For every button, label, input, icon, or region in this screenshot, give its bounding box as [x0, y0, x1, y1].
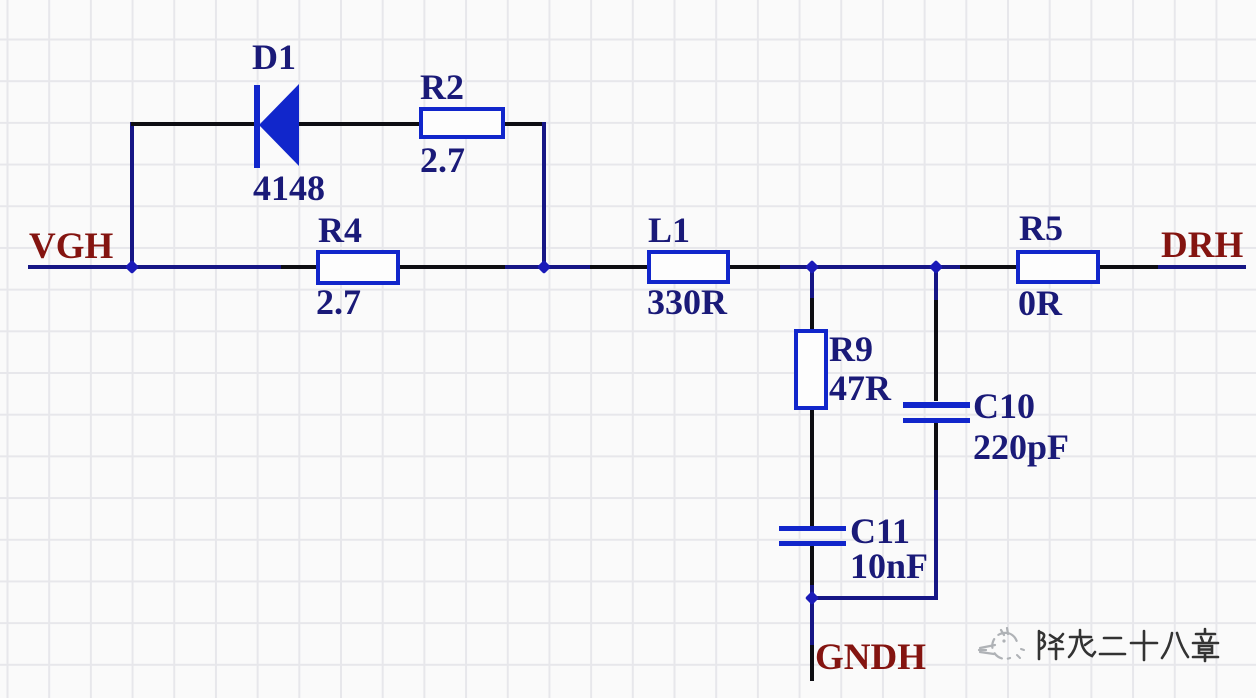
wire: junction A to R4: [131, 265, 281, 269]
wire: L1 to node C: [729, 265, 780, 269]
wire: R2 to right corner: [503, 122, 546, 126]
value 47R: [829, 370, 891, 406]
junction node E: [804, 591, 818, 605]
char 二: [1100, 638, 1125, 654]
char 十: [1131, 631, 1157, 660]
value 2.7 of R4: [316, 284, 361, 320]
wire: node C down to R9: [810, 267, 814, 298]
value 0R: [1018, 285, 1062, 321]
value 220pF: [973, 429, 1069, 465]
value 10nF: [850, 548, 928, 584]
label D1: [252, 39, 296, 75]
wire: node D to R5: [936, 265, 960, 269]
watermark bird logo: [977, 627, 1029, 667]
label R2: [420, 69, 464, 105]
capacitor C10 bottom plate: [903, 418, 970, 424]
label C11: [850, 513, 910, 549]
wire: top loop corner to diode: [131, 122, 255, 126]
label R4: [318, 212, 362, 248]
net label GNDH: [815, 639, 926, 676]
resistor R2 body: [419, 107, 505, 139]
wire: VGH lead to junction A: [28, 265, 132, 269]
value 330R: [647, 284, 727, 320]
net label VGH: [29, 228, 113, 265]
capacitor C11 bottom plate: [779, 541, 846, 546]
wire: junction B to L1: [544, 265, 590, 269]
wire: C10 to corner: [934, 423, 938, 490]
diode D1 cathode bar: [254, 85, 260, 168]
label L1: [648, 212, 690, 248]
capacitor C10 top plate: [903, 402, 970, 408]
net label DRH: [1161, 227, 1243, 264]
label R9: [829, 331, 873, 367]
junction node B: [537, 260, 551, 274]
junction node D: [928, 259, 942, 273]
wire: R4 to junction B: [399, 265, 505, 269]
resistor R9 body: [794, 329, 828, 410]
wire: node D down to C10: [934, 267, 938, 300]
inductor L1 body: [647, 250, 730, 284]
wire: diode to R2: [298, 122, 419, 126]
label R5: [1019, 210, 1063, 246]
resistor R4 body: [316, 250, 400, 285]
diode D1 triangle: [258, 83, 300, 167]
wire: right riser of bypass loop: [542, 122, 546, 267]
wire: C11 to junction E: [810, 546, 814, 585]
junction node C: [804, 259, 818, 273]
wire: node C to node D: [812, 265, 936, 269]
wire: left riser of bypass loop: [130, 122, 134, 267]
value 2.7 of R2: [420, 142, 465, 178]
char 降: [1039, 631, 1063, 659]
junction node A: [124, 260, 138, 274]
resistor R5 body: [1016, 250, 1100, 284]
label C10: [973, 388, 1035, 424]
wire: R9 to C11: [810, 410, 814, 526]
char 章: [1193, 629, 1218, 661]
char 八: [1162, 633, 1188, 658]
value 4148: [253, 170, 325, 206]
wire: R5 to DRH lead: [1099, 265, 1158, 269]
watermark text 降龙二十八章: [1035, 627, 1221, 667]
wire: bottom link junction E to C10 branch: [810, 596, 937, 600]
char 龙: [1069, 630, 1095, 657]
capacitor C11 top plate: [779, 526, 846, 531]
wire: junction E down to GNDH: [810, 598, 814, 645]
